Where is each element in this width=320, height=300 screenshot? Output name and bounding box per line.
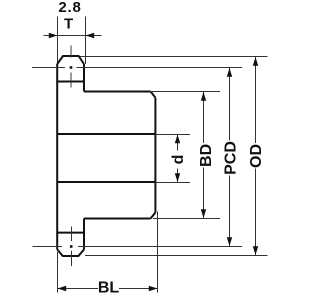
hub top edge (84, 91, 151, 93)
d dimension line upper segment (177, 135, 179, 151)
extension line right of T dimension (85, 17, 87, 65)
plate left face (56, 64, 58, 250)
hub bottom edge (84, 218, 151, 220)
label PCD (pitch circle diameter) (222, 141, 239, 175)
BL dimension line left segment (58, 288, 99, 290)
hub top chamfer (151, 92, 156, 98)
OD dimension lower arrowhead (points down) (253, 246, 258, 255)
bottom tooth vertical centerline lower dash (71, 251, 73, 266)
top tooth center dot (70, 66, 73, 69)
svg-text:2.8: 2.8 (58, 0, 81, 16)
OD dimension line upper segment (255, 57, 257, 144)
label OD (outer diameter) (248, 144, 265, 168)
svg-text:T: T (64, 15, 73, 32)
top tooth vertical centerline lower dash (70, 73, 72, 88)
PCD bottom reference line (pitch line right segment) (78, 246, 242, 248)
svg-text:PCD: PCD (222, 141, 239, 175)
PCD dimension upper arrowhead (points up) (227, 68, 232, 77)
T dimension line (44, 35, 102, 37)
OD bottom reference line (85, 255, 268, 257)
BL dimension line right segment (119, 288, 158, 290)
top tooth root line (57, 81, 84, 83)
BL right extension line (157, 212, 159, 293)
extension line left of T dimension (57, 17, 59, 65)
PCD top reference line (pitch line right segment) (77, 67, 243, 69)
OD dimension upper arrowhead (points up) (253, 57, 258, 66)
plate right face upper (83, 64, 85, 92)
PCD dimension lower arrowhead (points down) (227, 237, 232, 246)
BD top reference line (152, 91, 220, 93)
bore lower extension line (155, 182, 190, 184)
d dimension lower arrowhead (points down) (175, 173, 180, 182)
label BD (boss diameter) (198, 144, 215, 167)
svg-text:BD: BD (198, 144, 215, 167)
svg-text:d: d (170, 155, 187, 165)
T dimension left arrowhead (points right) (49, 33, 58, 38)
BD dimension upper arrowhead (points up) (201, 92, 206, 101)
BL left arrowhead (points left) (58, 286, 67, 291)
svg-text:OD: OD (248, 144, 265, 168)
bore upper line (57, 133, 155, 135)
d dimension upper arrowhead (points up) (175, 135, 180, 144)
label d (bore diameter) (170, 155, 187, 165)
top tooth profile (trapezoid) (57, 56, 84, 64)
PCD dimension line lower segment (229, 176, 231, 247)
bore lower line (57, 181, 155, 183)
top tooth vertical centerline upper dash (70, 46, 72, 58)
OD dimension line lower segment (255, 169, 257, 256)
BD bottom reference line (153, 218, 220, 220)
BL right arrowhead (points right) (149, 286, 158, 291)
bottom tooth root line (57, 232, 84, 234)
BD dimension lower arrowhead (points down) (201, 209, 206, 218)
top tooth horizontal centerline left segment (32, 67, 65, 69)
bottom tooth profile (trapezoid) (57, 250, 84, 257)
bottom tooth vertical centerline upper dash (71, 227, 73, 242)
plate right face lower (83, 219, 85, 250)
bottom tooth center dot (70, 245, 73, 248)
bottom tooth horizontal centerline left segment (33, 246, 63, 248)
OD top reference line (80, 56, 268, 58)
BD dimension line upper segment (203, 92, 205, 144)
d dimension line lower segment (177, 169, 179, 183)
svg-text:BL: BL (98, 279, 120, 296)
bore upper extension line (155, 134, 190, 136)
T dimension right arrowhead (points left) (86, 33, 95, 38)
PCD dimension line upper segment (229, 68, 231, 141)
BL left extension line (57, 252, 59, 293)
BD dimension line lower segment (203, 168, 205, 219)
hub bottom chamfer (151, 213, 156, 219)
hub right face (154, 98, 156, 213)
